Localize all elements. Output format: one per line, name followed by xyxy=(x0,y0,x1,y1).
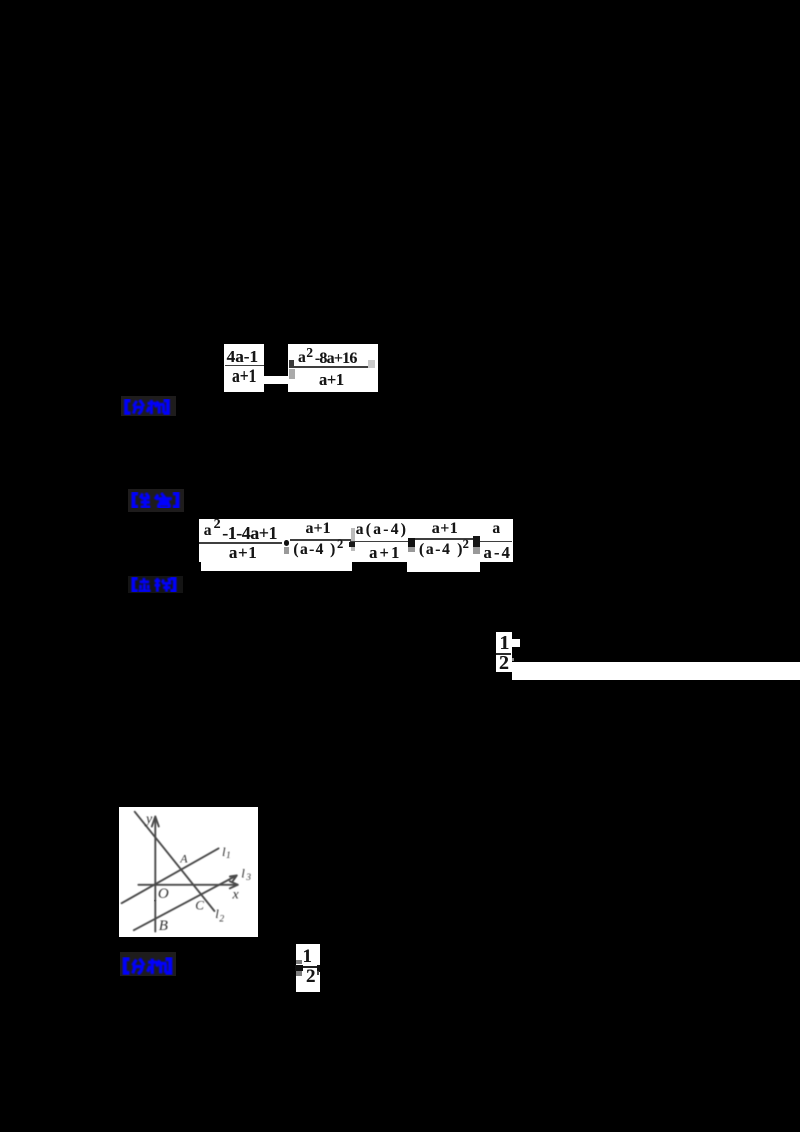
svg-text:O: O xyxy=(158,886,169,902)
svg-text:1: 1 xyxy=(226,851,231,861)
blue label 2 xyxy=(128,489,184,512)
formula row 1 xyxy=(224,344,264,392)
fraction =1/2 xyxy=(296,944,320,992)
blue label 3 xyxy=(128,576,184,593)
svg-text:B: B xyxy=(159,918,168,934)
formula row 2 xyxy=(199,519,513,562)
svg-text:2: 2 xyxy=(219,914,224,924)
blue label 1 xyxy=(121,396,176,416)
svg-text:y: y xyxy=(144,812,153,827)
svg-text:3: 3 xyxy=(245,872,251,882)
blue label 4 xyxy=(120,952,176,976)
fraction 1/2 with strip xyxy=(496,632,512,672)
svg-text:C: C xyxy=(195,897,204,912)
svg-text:A: A xyxy=(179,851,188,865)
svg-text:x: x xyxy=(232,887,240,902)
svg-text:l: l xyxy=(241,865,245,880)
coordinate graph xyxy=(119,807,258,937)
